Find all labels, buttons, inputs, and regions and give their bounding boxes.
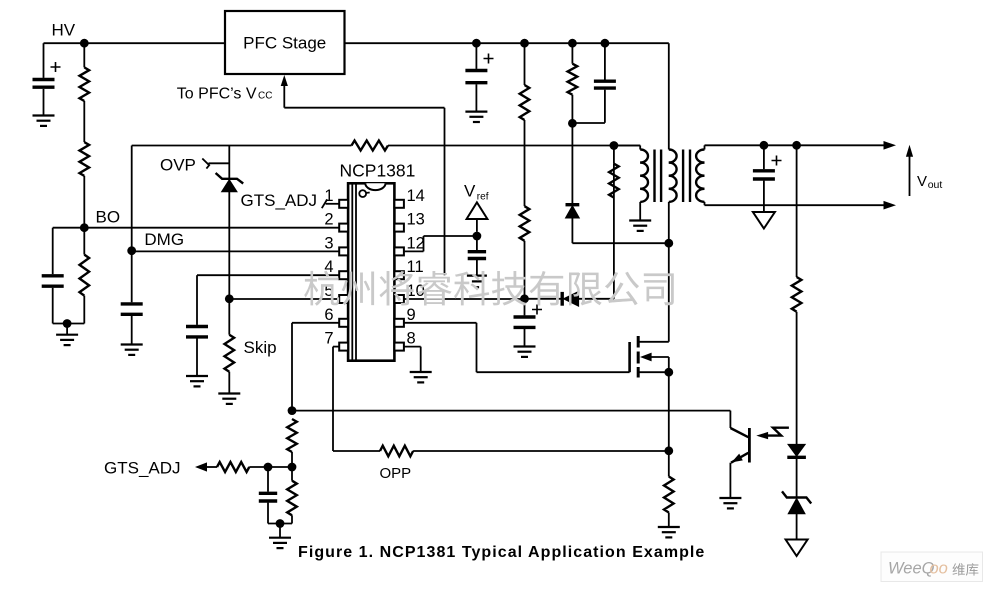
wire OVP rail <box>132 145 641 147</box>
svg-text:oo: oo <box>930 560 948 578</box>
ground for Q2 <box>719 498 741 508</box>
label GTS_ADJ output <box>104 459 181 478</box>
node rail-R3 <box>568 39 577 48</box>
wire C3 bottom to R3 node <box>572 122 605 124</box>
caption Figure 1 <box>298 544 705 561</box>
resistor R-GTS <box>217 462 249 472</box>
node HV <box>80 39 89 48</box>
wire Vout to divider resistor <box>796 145 798 277</box>
wire pin 4 lead <box>197 275 339 325</box>
ground triangle for C-out <box>753 212 775 229</box>
wire OVP rail left drop to DMG node <box>131 146 133 251</box>
wire D4 to Z2 <box>796 457 798 497</box>
capacitor C3 (snubber) <box>594 43 616 123</box>
Q1 gate bar <box>628 342 631 372</box>
U1 left pin numbers <box>324 187 333 348</box>
wire Vout+ rail <box>705 144 885 146</box>
wire between divider resistors <box>83 101 85 142</box>
wire pin 10 lead <box>404 298 525 300</box>
wire HV rail to PFC Stage input <box>44 42 226 44</box>
node Q1 source <box>664 368 673 377</box>
arrowhead GTS_ADJ (points left) <box>195 462 207 471</box>
label HV <box>52 21 76 40</box>
zener Z2 (cathode bar with hooks) <box>782 491 811 513</box>
node BO <box>80 223 89 232</box>
resistor R-sense <box>664 451 674 527</box>
ground triangle for zener chain <box>786 540 808 557</box>
wire R-GTS to node <box>249 466 268 468</box>
ground for fb network <box>269 524 291 549</box>
capacitor C1 Vcc bulk (polarized) <box>465 43 493 111</box>
Q1 source arrow (points into channel) <box>640 353 669 373</box>
svg-text:GTS_ADJ: GTS_ADJ <box>241 191 318 210</box>
wire Vcc feed horizontal <box>284 107 444 109</box>
svg-text:GTS_ADJ: GTS_ADJ <box>104 459 181 478</box>
label OVP <box>160 156 196 175</box>
svg-text:NCP1381: NCP1381 <box>340 161 416 181</box>
capacitor C-Vref <box>468 236 486 276</box>
wire fb bottom join <box>268 523 292 525</box>
wire pin 12 lead <box>404 236 477 251</box>
node feedback top <box>288 406 297 415</box>
wire Vout- rail <box>705 204 885 206</box>
node rail-R2 <box>520 39 529 48</box>
wire aux res to rail <box>613 146 615 164</box>
label Vout <box>917 173 942 191</box>
svg-text:1: 1 <box>324 187 333 205</box>
wire Q2 emitter down <box>729 463 731 498</box>
node fb mid-right <box>288 463 297 472</box>
light arrow into Q2 <box>756 428 789 440</box>
diode D4 (cathode down) <box>787 444 806 457</box>
wire BO ground join <box>53 323 85 325</box>
svg-text:7: 7 <box>324 330 333 348</box>
svg-text:V: V <box>917 173 927 190</box>
capacitor C-BO <box>42 228 64 324</box>
capacitor bulk HV (polarized) <box>33 43 61 115</box>
capacitor C-DMG <box>121 251 143 345</box>
wire pin 7 lead <box>333 347 339 451</box>
arrowhead Vout+ <box>884 141 897 150</box>
ground for C-DMG <box>121 345 143 355</box>
U1 left pin stubs 1-7 <box>339 200 348 351</box>
label BO <box>96 208 121 227</box>
ground for C-pin4 <box>186 376 208 386</box>
watermark WeeQoo box <box>881 552 983 582</box>
node rail-C3 <box>601 39 610 48</box>
svg-text:2: 2 <box>324 211 333 229</box>
U1 right pin stubs 8-14 <box>394 200 404 351</box>
svg-text:CC: CC <box>258 90 272 101</box>
resistor R2a (Vcc chain upper) <box>520 43 530 120</box>
svg-text:3: 3 <box>324 234 333 252</box>
wire pin 5 lead <box>229 298 339 300</box>
ground for aux winding <box>629 221 651 231</box>
Vref supply triangle <box>467 202 488 231</box>
wire collector line <box>292 411 730 428</box>
capacitor C-fb <box>259 467 277 524</box>
resistor HV divider lower <box>80 142 90 228</box>
resistor R3 (snubber) <box>568 43 578 123</box>
node Vref <box>473 232 482 241</box>
resistor R-fb-lower <box>287 467 297 524</box>
node out-cap <box>760 141 769 150</box>
wire To PFC Vcc arrow riser <box>283 86 285 108</box>
svg-text:12: 12 <box>407 234 425 252</box>
node out-divider <box>792 141 801 150</box>
svg-text:13: 13 <box>407 211 425 229</box>
diode D3 (points left, on pin10 line) <box>525 291 614 306</box>
U1 top notch arc <box>365 183 385 190</box>
watermark chinese <box>304 271 674 306</box>
node fb bottom <box>276 519 285 528</box>
capacitor C-pin10 (polarized) <box>514 299 543 347</box>
arrowhead Vout- <box>884 201 897 210</box>
ground for R-skip <box>218 394 240 404</box>
wire D3 to aux resistor <box>613 164 615 299</box>
wire R2a to R2b <box>524 120 526 206</box>
U1 pin-1 indicator circle <box>359 190 369 197</box>
node aux rail <box>610 141 619 150</box>
svg-text:11: 11 <box>407 258 424 276</box>
node fb mid-left <box>264 463 273 472</box>
resistor R-OPP <box>380 446 413 457</box>
wire pin 9 lead to gate <box>404 323 630 372</box>
label DMG <box>144 230 184 249</box>
transistor Q1 MOSFET channel bar (3 segments) <box>637 336 640 378</box>
resistor R-aux <box>609 164 619 198</box>
Q1 source bottom stub <box>639 371 669 373</box>
wire GTS arrow to resistor <box>207 466 218 468</box>
label OPP <box>380 465 412 482</box>
svg-text:OPP: OPP <box>380 465 412 482</box>
transistor Q2 opto collector <box>730 428 748 437</box>
resistor R-BO <box>80 228 90 324</box>
svg-text:9: 9 <box>407 306 416 324</box>
label GTS_ADJ pin1 <box>241 191 318 210</box>
slash pin1 link <box>322 199 327 208</box>
svg-text:Skip: Skip <box>244 338 277 357</box>
wire Z1 anode down to skip node <box>228 192 230 299</box>
resistor HV divider upper <box>80 43 90 101</box>
ground for pin 8 <box>410 372 432 382</box>
U1 right pin numbers <box>407 187 425 348</box>
transformer T1 secondary winding <box>696 145 704 205</box>
ground for HV capacitor <box>33 116 55 126</box>
wire pin 8 lead <box>404 347 421 372</box>
resistor R-feedback on OVP rail <box>352 141 388 151</box>
resistor R2b (Vcc chain lower) <box>520 206 530 299</box>
wire BO line to pin 2 <box>53 227 340 229</box>
Q2 emitter with arrow <box>731 453 748 463</box>
node pin10 junction <box>520 294 529 303</box>
svg-text:To PFC’s V: To PFC’s V <box>177 85 257 102</box>
svg-text:6: 6 <box>324 306 333 324</box>
capacitor C-out (polarized) <box>753 145 782 212</box>
node source-sense <box>664 446 673 455</box>
svg-text:PFC Stage: PFC Stage <box>243 34 326 53</box>
wire pin1 stub lead <box>326 203 340 205</box>
svg-text:out: out <box>928 179 943 191</box>
label Vref <box>464 181 489 202</box>
transformer core lines right pair <box>683 150 690 203</box>
wire Vcc feed vertical to pin 11 <box>444 108 446 276</box>
svg-text:BO: BO <box>96 208 121 227</box>
arrow Vout measure <box>906 145 913 196</box>
tick OVP label pointer <box>202 159 229 169</box>
node DMG <box>127 246 136 255</box>
ground for C-pin10 <box>514 347 536 357</box>
svg-text:V: V <box>464 181 476 200</box>
label NCP1381 <box>340 161 416 181</box>
transformer core lines left pair <box>655 150 662 203</box>
node skip <box>225 294 234 303</box>
wire pin 6 lead <box>292 323 339 411</box>
label PFC Stage <box>243 34 326 53</box>
ground for C-Vref <box>467 276 487 288</box>
op-amp U1 NCP1381 body <box>348 183 394 360</box>
svg-text:DMG: DMG <box>144 230 184 249</box>
transformer T1 aux winding <box>614 146 648 221</box>
ground for C1 <box>465 112 487 122</box>
diode D2 clamp (cathode up) <box>566 205 580 218</box>
wire Z2 to ground triangle <box>796 514 798 540</box>
node rail-C1 <box>472 39 481 48</box>
wire snubber node to clamp diode <box>571 123 573 203</box>
resistor R-div <box>792 277 802 312</box>
node BO ground junction <box>63 319 72 328</box>
wire Q1 source down <box>668 372 670 451</box>
label Skip <box>244 338 277 357</box>
wire fb mid join <box>268 466 292 468</box>
svg-text:HV: HV <box>52 21 76 40</box>
Q2 base bar <box>748 428 751 463</box>
wire DMG line to pin 3 <box>132 250 340 252</box>
capacitor C-pin4 <box>186 327 208 377</box>
wire R-div to D4 <box>796 312 798 445</box>
svg-text:OVP: OVP <box>160 156 196 175</box>
wire D2 anode to primary bottom <box>572 218 668 243</box>
zener Z1 GTS_ADJ (cathode bar with hooks) <box>216 173 244 192</box>
svg-text:ref: ref <box>477 191 489 202</box>
wire OPP to source-sense node <box>413 450 669 452</box>
resistor R-fb-upper <box>287 419 297 467</box>
svg-text:Figure 1. NCP1381 Typical Appl: Figure 1. NCP1381 Typical Application Ex… <box>298 544 705 561</box>
U1 inner double line <box>352 183 356 360</box>
svg-text:WeeQ: WeeQ <box>888 560 935 578</box>
label To PFC's Vcc <box>177 85 273 102</box>
wire primary to MOSFET drain <box>639 243 669 342</box>
transformer T1 primary winding <box>669 43 677 243</box>
node primary bottom <box>664 239 673 248</box>
svg-text:8: 8 <box>407 330 416 348</box>
node snubber junction <box>568 119 577 128</box>
wire OVP rail to zener Z1 <box>228 146 230 179</box>
svg-text:14: 14 <box>407 187 425 205</box>
wire pin7 to OPP resistor <box>333 450 380 452</box>
wire PFC output rail <box>345 42 669 44</box>
block PFC Stage <box>225 11 345 74</box>
ground for BO network <box>56 324 78 346</box>
arrowhead into PFC Stage bottom <box>281 75 288 86</box>
resistor R-skip <box>225 299 235 394</box>
ground for R-sense <box>658 527 680 537</box>
